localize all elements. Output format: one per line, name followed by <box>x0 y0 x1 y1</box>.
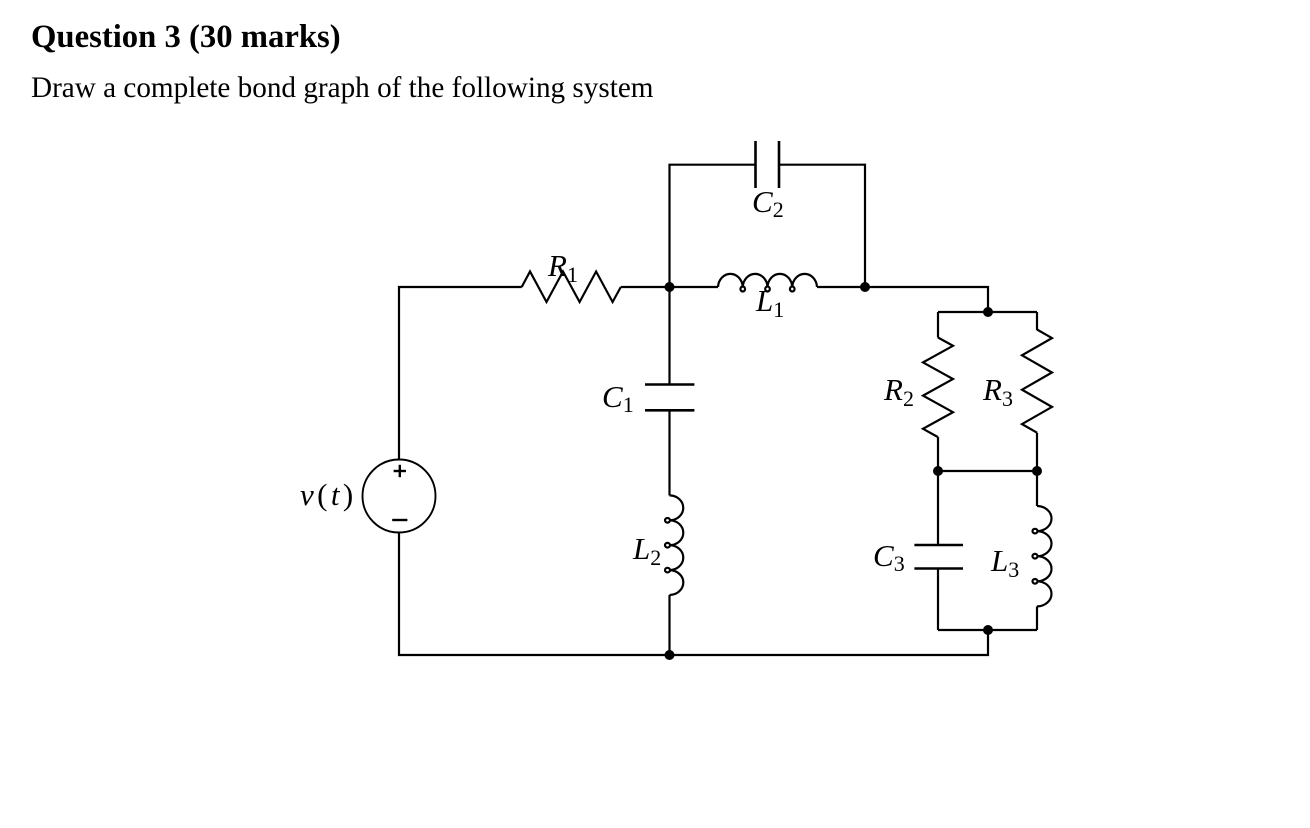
svg-text:L1: L1 <box>755 283 784 322</box>
wire R3 top stub <box>1036 312 1038 330</box>
wire R2 bottom stub <box>937 437 939 471</box>
wire R1 to node A <box>621 286 718 288</box>
capacitor C1 <box>645 385 694 411</box>
inductor L1 <box>718 274 817 292</box>
wire bottom right bar <box>938 629 1037 631</box>
wire R2 top stub <box>937 312 939 338</box>
svg-text:R2: R2 <box>883 372 914 411</box>
inductor L2 <box>665 495 683 595</box>
node D <box>933 466 943 476</box>
capacitor C2 <box>756 141 780 188</box>
plus sign <box>394 465 406 477</box>
wire C3 bottom stub <box>937 569 939 631</box>
wire bottom rail <box>399 533 988 656</box>
capacitor C3 <box>914 545 963 569</box>
wire node B to right corner <box>865 287 988 312</box>
wire mid bar <box>938 470 1037 472</box>
resistor R2 <box>923 338 953 438</box>
minus sign <box>392 519 407 521</box>
svg-text:C2: C2 <box>752 184 784 222</box>
node A <box>665 282 675 292</box>
svg-text:C1: C1 <box>602 379 634 417</box>
resistor R1 <box>522 272 621 303</box>
wire left rail top <box>399 287 522 460</box>
wire C2 branch left <box>670 165 756 287</box>
inductor L3 <box>1033 506 1052 606</box>
resistor R3 <box>1022 330 1052 433</box>
wire L3 bottom stub <box>1036 606 1038 630</box>
svg-text:v(t): v(t) <box>300 477 357 512</box>
wire L2 bottom stub <box>668 595 670 655</box>
wire R3 bottom stub <box>1036 433 1038 471</box>
node B <box>860 282 870 292</box>
svg-text:R3: R3 <box>982 372 1013 411</box>
node G <box>665 650 675 660</box>
node F <box>983 625 993 635</box>
node E <box>1032 466 1042 476</box>
wire C1 to L2 <box>668 410 670 495</box>
wire C1 top stub <box>668 287 670 384</box>
wire right top bar <box>938 311 1037 313</box>
svg-text:L3: L3 <box>990 543 1019 582</box>
svg-text:L2: L2 <box>632 531 661 570</box>
wire C2 branch right <box>779 165 865 287</box>
wire L3 top stub <box>1036 471 1038 506</box>
svg-text:C3: C3 <box>873 538 905 576</box>
wire L1 to node B <box>817 286 865 288</box>
node C <box>983 307 993 317</box>
wire C3 top stub <box>937 471 939 544</box>
svg-text:R1: R1 <box>547 248 578 287</box>
voltage source v(t) <box>363 460 436 533</box>
